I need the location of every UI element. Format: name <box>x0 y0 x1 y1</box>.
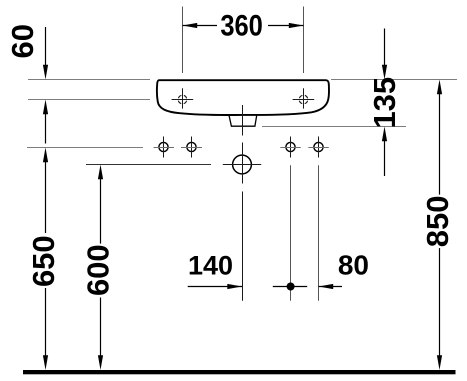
supply-height reference line <box>27 147 143 149</box>
dimension 360: value label <box>220 8 263 41</box>
svg-text:80: 80 <box>338 250 369 281</box>
dimension 600: value label (rotated) <box>80 244 115 296</box>
faucet-height reference line <box>28 99 150 101</box>
dimension 650: dimension line with arrows and gap for text <box>43 148 48 371</box>
dimension 360: left arrow <box>183 23 218 28</box>
floor line <box>23 370 456 374</box>
dimension 850: dimension line with arrows and gap for text <box>437 80 442 371</box>
drain trapezoid <box>229 115 257 126</box>
supply hole circle left-1 <box>154 137 175 158</box>
svg-text:600: 600 <box>80 244 115 296</box>
dimension 135: lower dimension line with up arrow <box>382 127 387 177</box>
dimension 360: left extension line <box>182 7 184 74</box>
svg-text:360: 360 <box>220 8 263 41</box>
drain centerline <box>242 105 244 301</box>
dimension 600: dimension line with arrows and gap for text <box>98 165 103 371</box>
supply hole circle right-1 <box>280 137 301 158</box>
dimension 140: arrow pointing right to drain centerline <box>188 284 242 289</box>
dimension 140: value label <box>188 250 233 280</box>
dimension 60: lower dimension line with up arrow <box>43 100 48 144</box>
rim top reference line left segment <box>28 79 150 81</box>
supply hole circle left-2 <box>181 137 202 158</box>
svg-text:140: 140 <box>188 250 233 280</box>
dimension tie line with dot <box>273 283 307 291</box>
svg-text:850: 850 <box>420 196 455 248</box>
svg-text:650: 650 <box>26 235 61 287</box>
faucet hole crosshair left <box>172 88 194 108</box>
dimension 360: right arrow <box>268 23 304 28</box>
supply extension line right-2 <box>318 165 320 301</box>
dimension 60: upper dimension line with down arrow <box>43 27 48 80</box>
dimension 60: value label (rotated) <box>5 24 40 58</box>
supply extension line right-1 <box>290 165 292 301</box>
dimension 135: value label (rotated) <box>367 77 402 129</box>
dimension 650: value label (rotated) <box>26 235 61 287</box>
dimension 360: right extension line <box>303 7 305 74</box>
faucet hole crosshair right <box>293 88 315 108</box>
dimension 80: value label <box>338 250 369 281</box>
svg-text:135: 135 <box>367 77 402 129</box>
drain-height reference line <box>86 164 211 166</box>
135 lower reference line <box>262 126 406 128</box>
rim top reference line right segment <box>331 79 457 81</box>
drain circle <box>223 155 261 174</box>
basin outline <box>157 80 329 115</box>
dimension 80: arrow pointing left to supply line <box>319 284 343 289</box>
supply hole circle right-2 <box>308 137 329 158</box>
dimension 135: upper dimension line with down arrow <box>382 29 387 80</box>
svg-text:60: 60 <box>5 24 40 58</box>
dimension 850: value label (rotated) <box>420 196 455 248</box>
